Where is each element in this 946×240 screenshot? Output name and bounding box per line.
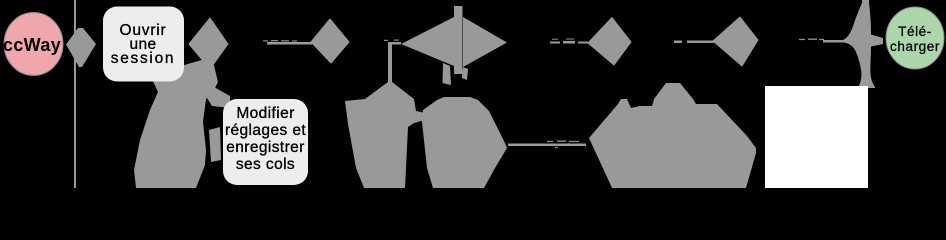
wire thin line segment 5 (823, 40, 844, 43)
svg-text:charger: charger (890, 39, 940, 54)
node lens gateway on timeline (66, 28, 96, 67)
wire thin line segment 1 (267, 42, 312, 45)
svg-text:réglages et: réglages et (225, 122, 306, 139)
wire expanding triangle into bar 1 (401, 17, 454, 66)
wire band from session box down-left to bottom edge (134, 57, 218, 188)
node diamond D1 after session box (189, 18, 228, 69)
node bar 2 spindle with trumpet (843, 0, 875, 88)
wire corner stub at x=390 with drop (388, 42, 401, 84)
node start circle ccWay (4, 13, 63, 76)
node diamond D3 (588, 18, 631, 66)
node diamond D2 (311, 19, 349, 63)
svg-text:Modifier: Modifier (236, 105, 294, 122)
label marks on segment 5 (799, 39, 824, 41)
label marks on segment 1 (263, 40, 297, 42)
node bar 1 (454, 6, 463, 74)
wire drop stub right of bar 1 (462, 67, 468, 80)
wire arm from band to Modifier box corner (207, 87, 230, 108)
label marks on bottom line (547, 140, 579, 148)
node activity box Ouvrir une session (103, 7, 184, 82)
label marks near corner 390 (384, 40, 399, 42)
svg-text:enregistrer: enregistrer (226, 139, 305, 156)
wire drop trapezoid from triangle into blob (443, 63, 452, 85)
wire strip from Modifier box bottom-left down to band (209, 127, 221, 162)
svg-text:ses cols: ses cols (236, 156, 295, 173)
node diamond D4 (713, 17, 758, 66)
wire big mass bottom right (589, 83, 756, 188)
wire thin line segment 4 (674, 41, 682, 44)
svg-text:ccWay: ccWay (3, 35, 61, 55)
node activity box Modifier reglages (223, 99, 308, 185)
node end circle Telecharger (886, 7, 944, 69)
wire bottom thin line (508, 144, 586, 147)
wire merge blob below bar 1 (422, 97, 507, 188)
svg-text:Télé-: Télé- (898, 24, 932, 39)
wire thin line segment 3 (fuzzy) (550, 41, 588, 44)
wire vertical timeline line x=75 (74, 0, 76, 188)
tooltip white box (765, 86, 868, 188)
wire funnel below x=390 down to bottom (345, 82, 425, 188)
wire nub toward green circle (869, 34, 883, 47)
wire converging triangle out of bar 1 (463, 17, 507, 67)
svg-text:session: session (111, 50, 175, 67)
